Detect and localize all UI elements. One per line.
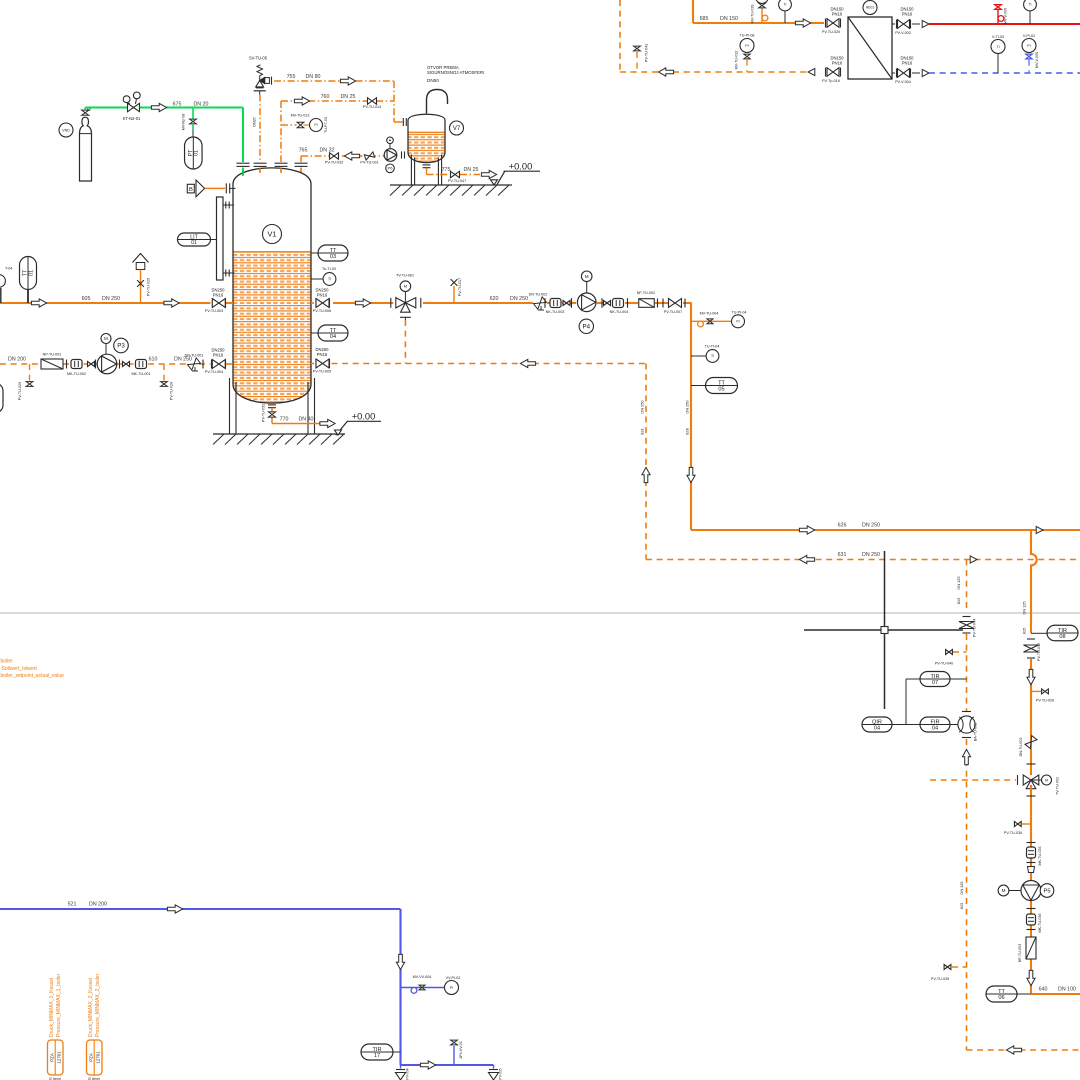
svg-text:PV-TU-036: PV-TU-036 bbox=[1004, 831, 1022, 835]
vent PV-TU-041 bbox=[636, 52, 638, 72]
flow arrow 626 bbox=[799, 526, 814, 534]
svg-text:PI: PI bbox=[1027, 44, 1030, 48]
svg-text:631: 631 bbox=[838, 552, 847, 558]
svg-text:MV-VV-004: MV-VV-004 bbox=[413, 975, 432, 979]
valve PV-V-002 bbox=[892, 23, 895, 25]
svg-text:DN50: DN50 bbox=[427, 78, 439, 83]
instrument TI 685 bbox=[779, 0, 792, 11]
svg-text:DN 125: DN 125 bbox=[956, 576, 961, 589]
instrument PI TU-PI-04 bbox=[732, 315, 745, 328]
sample MV-TU-039 bbox=[761, 9, 763, 24]
wire line 610 bbox=[0, 363, 41, 365]
label V1 bbox=[263, 225, 282, 244]
svg-text:TIR: TIR bbox=[1058, 628, 1067, 634]
instrument TI red bbox=[1024, 0, 1037, 11]
flow arrow line 775 bbox=[481, 170, 496, 178]
svg-text:PV-TU-032: PV-TU-032 bbox=[262, 404, 266, 422]
svg-text:TI: TI bbox=[996, 45, 999, 49]
check valve DN-TU-003 bbox=[1025, 736, 1037, 749]
wire 610 return down bbox=[645, 364, 647, 559]
valve PV-TU-007 bbox=[657, 299, 659, 308]
svg-text:DN 125: DN 125 bbox=[1022, 601, 1027, 614]
svg-text:17: 17 bbox=[374, 1053, 380, 1059]
svg-text:N2: N2 bbox=[87, 108, 91, 112]
svg-text:605: 605 bbox=[82, 296, 91, 302]
strainer NP-TU-001 bbox=[41, 359, 63, 369]
flange V1 nozzle 3 bbox=[275, 162, 288, 164]
valve PV-TU-004 bbox=[202, 360, 204, 369]
svg-text:PV-TU-047: PV-TU-047 bbox=[448, 179, 466, 183]
wire 815 dashed down bbox=[966, 560, 968, 613]
instrument TT 03 bbox=[311, 252, 318, 254]
flow arrow 605 left bbox=[31, 299, 46, 307]
svg-text:PZA: PZA bbox=[89, 1053, 94, 1062]
svg-text:815: 815 bbox=[1022, 628, 1027, 635]
wire line 765 bbox=[301, 155, 384, 157]
svg-text:PI: PI bbox=[745, 44, 748, 48]
svg-text:PI: PI bbox=[736, 320, 739, 324]
wire hot water red bbox=[929, 23, 1080, 25]
junction tri hot out bbox=[912, 23, 920, 25]
svg-text:DN20: DN20 bbox=[252, 117, 256, 126]
junction 626 branch bbox=[1036, 526, 1043, 533]
svg-text:PV-TU-041: PV-TU-041 bbox=[645, 44, 649, 62]
svg-text:04: 04 bbox=[330, 334, 336, 340]
wire 815 lower bbox=[966, 739, 968, 1050]
svg-text:Pressure_MINMAX_1_boiler: Pressure_MINMAX_1_boiler bbox=[56, 973, 62, 1037]
wire solid column bbox=[1030, 659, 1032, 775]
wire 815 bottom corner bbox=[967, 1049, 1080, 1051]
svg-text:VV-PI-02: VV-PI-02 bbox=[446, 976, 461, 980]
svg-text:521: 521 bbox=[68, 902, 77, 908]
drain funnel left bbox=[400, 1065, 402, 1069]
wire 765 drop to V1 bbox=[300, 156, 302, 162]
svg-text:675: 675 bbox=[173, 101, 182, 107]
wire SV inlet DN20 to V1 bbox=[259, 95, 261, 163]
wire green from cylinder to V1 bbox=[84, 108, 86, 110]
svg-text:PV-TU-042: PV-TU-042 bbox=[1037, 643, 1041, 661]
svg-text:DN 250: DN 250 bbox=[102, 296, 120, 302]
svg-text:V-TI-03: V-TI-03 bbox=[992, 35, 1004, 39]
sample MV-V-006 red bbox=[997, 10, 999, 24]
pump P4 bbox=[577, 293, 596, 312]
valve PV-TU-042 bbox=[1027, 638, 1035, 640]
svg-text:PV-TU-003: PV-TU-003 bbox=[205, 309, 223, 313]
svg-text:TI: TI bbox=[783, 3, 786, 7]
svg-text:Pressure_MINMAX_2_boiler: Pressure_MINMAX_2_boiler bbox=[95, 973, 101, 1037]
svg-text:PV-004: PV-004 bbox=[406, 1068, 410, 1079]
svg-text:NK-TU-003: NK-TU-003 bbox=[546, 310, 565, 314]
svg-text:PV-TU-004: PV-TU-004 bbox=[205, 370, 223, 374]
svg-text:MK-TU-036: MK-TU-036 bbox=[1038, 913, 1042, 932]
vent valve PV-TU-029 bbox=[29, 364, 31, 381]
sample point MV-TU-004 bbox=[691, 320, 732, 322]
wire 610 return dashed bbox=[332, 363, 647, 365]
flow arrow 521 bbox=[167, 905, 182, 913]
node V1 top nozzles bbox=[242, 168, 244, 176]
instrument QIR 04 bbox=[862, 717, 892, 732]
svg-text:DN 32: DN 32 bbox=[319, 148, 334, 154]
instrument PT 01 bbox=[185, 137, 203, 169]
svg-text:PN16: PN16 bbox=[213, 353, 224, 358]
svg-text:05: 05 bbox=[718, 386, 724, 392]
valve MV-TU-013 with PI bbox=[281, 124, 297, 126]
svg-text:NF-TU-002: NF-TU-002 bbox=[637, 291, 655, 295]
flow arrow 620 down bbox=[687, 467, 695, 482]
svg-text:TI: TI bbox=[328, 277, 331, 281]
svg-text:04: 04 bbox=[932, 725, 938, 731]
svg-text:FIR: FIR bbox=[930, 719, 939, 725]
strainer NF-TU-002 bbox=[639, 299, 655, 308]
svg-text:boiler: boiler bbox=[1, 659, 14, 665]
instrument cut capsule left bbox=[0, 383, 3, 413]
svg-text:P4: P4 bbox=[583, 324, 591, 331]
wire B to V1 bbox=[205, 187, 225, 189]
flow arrow 521 down bbox=[396, 954, 404, 969]
svg-text:TU-PI-08: TU-PI-08 bbox=[740, 34, 755, 38]
svg-text:PV-TU-035: PV-TU-035 bbox=[931, 977, 949, 981]
strainer NF-TU-003 bbox=[1026, 937, 1036, 959]
flow arrow line 675 bbox=[151, 103, 166, 111]
svg-text:815: 815 bbox=[956, 598, 961, 605]
drain valve DN-TU-001 bbox=[188, 358, 201, 370]
svg-text:640: 640 bbox=[1039, 987, 1048, 993]
offpage connector B bbox=[187, 184, 194, 193]
flow arrow 620a bbox=[355, 299, 370, 307]
flex MK-TU-002 bbox=[66, 360, 68, 369]
svg-text:M: M bbox=[1002, 888, 1006, 893]
wire 3way to dashed bbox=[404, 320, 406, 364]
flow arrow HX return bbox=[658, 68, 673, 76]
flow arrow line 760 bbox=[294, 97, 309, 105]
instrument PI VV-PI-02 bbox=[445, 981, 459, 995]
junction tri cold out bbox=[912, 72, 920, 74]
flow arrow 685 bbox=[795, 19, 810, 27]
svg-text:Druck_MINMAX_1_Kessel: Druck_MINMAX_1_Kessel bbox=[49, 978, 55, 1037]
instrument FIR 04 bbox=[920, 717, 950, 732]
svg-text:MV-TU-032: MV-TU-032 bbox=[735, 51, 739, 70]
elevation marker V1 +0.00 bbox=[336, 421, 348, 435]
signal line horizontal bbox=[804, 629, 963, 631]
svg-text:boiler_setpoint_actual_value: boiler_setpoint_actual_value bbox=[1, 673, 65, 679]
wire line 626 bbox=[691, 529, 1080, 531]
svg-text:PN16: PN16 bbox=[902, 12, 913, 17]
svg-text:SV-TU-05: SV-TU-05 bbox=[249, 56, 268, 61]
svg-text:KT-N2-01: KT-N2-01 bbox=[123, 116, 141, 121]
svg-text:DN 125: DN 125 bbox=[959, 881, 964, 894]
instrument TT 01 bbox=[20, 257, 37, 290]
reducer P4 suction bbox=[563, 301, 570, 306]
level gauge standpipe bbox=[217, 197, 224, 280]
vent PV-TU-036 bbox=[1022, 823, 1031, 825]
svg-text:V7: V7 bbox=[453, 126, 461, 132]
svg-text:PN16: PN16 bbox=[902, 61, 913, 66]
svg-text:TU-PI-04: TU-PI-04 bbox=[732, 311, 747, 315]
svg-text:PI: PI bbox=[450, 986, 453, 990]
valve PV-TU-020 bbox=[825, 19, 827, 28]
svg-text:M: M bbox=[104, 336, 108, 341]
svg-text:PV-TU-044: PV-TU-044 bbox=[973, 619, 977, 637]
wire line 755 bbox=[274, 80, 394, 82]
svg-text:DN 250: DN 250 bbox=[862, 552, 880, 558]
svg-text:DN-TU-001: DN-TU-001 bbox=[185, 353, 204, 357]
reducer P5 bbox=[1028, 867, 1035, 873]
svg-text:PV-TU-026: PV-TU-026 bbox=[1036, 699, 1054, 703]
flange V1 nozzle green bbox=[237, 162, 250, 164]
valve MV-N2-08 bbox=[192, 108, 194, 119]
valve PV-TU-005 bbox=[311, 363, 314, 365]
elevation marker V7 +0.00 bbox=[497, 171, 505, 184]
svg-text:VND: VND bbox=[62, 128, 70, 132]
svg-text:PZA: PZA bbox=[50, 1053, 55, 1062]
svg-text:M: M bbox=[585, 274, 589, 279]
junction square bbox=[881, 627, 888, 634]
svg-text:PN16: PN16 bbox=[213, 293, 224, 298]
svg-text:DN 250: DN 250 bbox=[639, 400, 644, 414]
vessel V7 bbox=[408, 114, 445, 162]
valve PV-V-004 bbox=[892, 72, 895, 74]
flex MK-TU-001 bbox=[119, 360, 121, 369]
flow arrow line 765 bbox=[344, 152, 359, 160]
svg-text:+0.00: +0.00 bbox=[352, 412, 376, 422]
svg-text:DN 25: DN 25 bbox=[340, 94, 355, 100]
flange V7 nozzle top bbox=[402, 118, 404, 126]
svg-text:MK-TU-001: MK-TU-001 bbox=[131, 372, 150, 376]
svg-text:07: 07 bbox=[932, 680, 938, 686]
vent valve PV-TU-035 bbox=[952, 966, 967, 968]
drain funnel right bbox=[493, 1065, 495, 1069]
svg-text:01: 01 bbox=[191, 240, 197, 246]
flange below 3way bbox=[1027, 795, 1036, 797]
gray divider line bbox=[0, 612, 1080, 614]
instrument TIR 17 bbox=[361, 1044, 393, 1060]
svg-text:M: M bbox=[1045, 778, 1048, 782]
wire line 605 bbox=[0, 302, 211, 304]
svg-text:DN 200: DN 200 bbox=[89, 902, 107, 908]
svg-text:770: 770 bbox=[280, 416, 289, 422]
svg-text:PV-TU-020: PV-TU-020 bbox=[822, 30, 840, 34]
valve KT-N2-01 bbox=[128, 103, 140, 111]
wire V7 drain 775 bbox=[423, 164, 431, 166]
svg-text:PV-TU-017: PV-TU-017 bbox=[458, 278, 462, 296]
svg-text:BA-TU-002: BA-TU-002 bbox=[974, 723, 978, 741]
svg-text:MV-TU-013: MV-TU-013 bbox=[291, 114, 310, 118]
flow arrow 831 up bbox=[642, 467, 650, 482]
flow arrow down col bbox=[1027, 669, 1035, 684]
vessel V1 bbox=[233, 168, 311, 403]
flex MK-TU-004 bbox=[613, 299, 624, 308]
svg-text:TT: TT bbox=[330, 248, 337, 254]
svg-text:P3: P3 bbox=[117, 343, 125, 350]
svg-text:610: 610 bbox=[149, 357, 158, 363]
svg-text:MV-N2-08: MV-N2-08 bbox=[182, 114, 186, 131]
instrument TT 06 bbox=[986, 986, 1017, 1002]
svg-text:760: 760 bbox=[321, 94, 330, 100]
signal TIR07 to FIR04 bbox=[906, 678, 920, 680]
svg-text:DN 25: DN 25 bbox=[463, 167, 478, 173]
svg-text:PV-TU-006: PV-TU-006 bbox=[313, 309, 331, 313]
svg-text:DN 250: DN 250 bbox=[684, 400, 689, 414]
flow arrow 815 bottom bbox=[1006, 1046, 1021, 1054]
flow arrow 521 bottom bbox=[420, 1061, 435, 1069]
svg-text:DN 250: DN 250 bbox=[862, 523, 880, 529]
svg-text:DN 150: DN 150 bbox=[720, 16, 738, 22]
svg-text:MV-V-005: MV-V-005 bbox=[1035, 52, 1039, 68]
svg-text:06: 06 bbox=[998, 995, 1004, 1001]
svg-text:P6: P6 bbox=[388, 166, 394, 171]
svg-text:Tu-TI-03: Tu-TI-03 bbox=[322, 267, 336, 271]
flow arrow 815 up bbox=[962, 749, 970, 764]
svg-text:MV-TU-039: MV-TU-039 bbox=[751, 5, 755, 24]
flex MK-TU-035 bbox=[1027, 842, 1036, 844]
flange B nozzle bbox=[225, 183, 227, 193]
flange V1 nozzle 2 bbox=[254, 162, 267, 164]
svg-text:755: 755 bbox=[287, 74, 296, 80]
svg-text:DN-TU-003: DN-TU-003 bbox=[1019, 738, 1023, 757]
flex MK-TU-003 bbox=[544, 298, 546, 308]
wire cold water blue bbox=[929, 72, 1080, 74]
valve PV-TU-044 bbox=[963, 616, 971, 618]
junction 631 branch bbox=[970, 556, 977, 563]
svg-text:PV-TU-040: PV-TU-040 bbox=[935, 661, 953, 665]
wire line 620 bbox=[423, 302, 533, 304]
svg-text:PV-TU-029: PV-TU-029 bbox=[18, 382, 22, 400]
svg-text:PV-TU-005: PV-TU-005 bbox=[313, 369, 331, 373]
svg-text:+0.00: +0.00 bbox=[509, 161, 533, 171]
valve PV-TU-047 bbox=[451, 171, 460, 177]
svg-text:PV-TU-025: PV-TU-025 bbox=[147, 278, 151, 296]
svg-text:TT: TT bbox=[998, 989, 1005, 995]
svg-text:PV-V-004: PV-V-004 bbox=[895, 80, 911, 84]
wire V1 drain 770 bbox=[268, 404, 276, 406]
instrument TI TU-TI-04 bbox=[691, 355, 706, 357]
flange V7 pump nozzle bbox=[401, 151, 403, 158]
svg-text:DN 20: DN 20 bbox=[193, 101, 208, 107]
instrument cut left PT bbox=[0, 275, 5, 288]
instrument TIR 08 bbox=[1031, 632, 1047, 634]
label V7 bbox=[450, 121, 464, 135]
svg-text:SIGURNOSNOJ ATMOSFERI: SIGURNOSNOJ ATMOSFERI bbox=[427, 70, 484, 75]
svg-text:DN-TU-002: DN-TU-002 bbox=[529, 292, 548, 296]
wire 815 below valve bbox=[966, 634, 968, 711]
check valve PV-TU-031 bbox=[364, 152, 374, 160]
three-way valve TV-TU-002 bbox=[1017, 775, 1019, 785]
wire line 760 bbox=[281, 100, 394, 102]
ground hatch V7 bbox=[390, 184, 512, 186]
wire line 685 bbox=[692, 0, 694, 23]
svg-text:V1: V1 bbox=[267, 230, 276, 239]
flow arrow 610 return bbox=[520, 359, 535, 367]
instrument TT 04 bbox=[311, 332, 318, 334]
svg-text:MK-TU-035: MK-TU-035 bbox=[1038, 846, 1042, 865]
svg-text:DN 100: DN 100 bbox=[1058, 987, 1076, 993]
pump P6 bbox=[384, 149, 397, 162]
svg-text:DN 250: DN 250 bbox=[510, 296, 528, 302]
wire 620 from valve to 3way bbox=[333, 302, 393, 304]
svg-text:PN16: PN16 bbox=[317, 293, 328, 298]
instrument VND bbox=[59, 123, 73, 137]
reducer before P3 bbox=[88, 362, 95, 367]
nitrogen cylinder bbox=[80, 117, 92, 181]
valve PV-Tp-019 bbox=[825, 68, 827, 77]
pump P5 bbox=[1021, 881, 1041, 901]
svg-text:04: 04 bbox=[874, 725, 880, 731]
svg-text:V-PI-02: V-PI-02 bbox=[1023, 34, 1035, 38]
svg-text:12701: 12701 bbox=[96, 1051, 101, 1064]
flex MK-TU-036 bbox=[1027, 908, 1036, 910]
svg-text:PV-005: PV-005 bbox=[499, 1068, 503, 1079]
svg-text:PV-TU-031: PV-TU-031 bbox=[360, 160, 378, 164]
wire 521 bottom bbox=[401, 1064, 494, 1066]
svg-text:01: 01 bbox=[194, 150, 200, 156]
flange above 3way bbox=[1027, 763, 1036, 765]
flow arrow 605 mid bbox=[164, 299, 179, 307]
valve PV-TU-014 bbox=[368, 98, 377, 104]
svg-text:01: 01 bbox=[28, 270, 34, 276]
svg-text:PV-V-002: PV-V-002 bbox=[895, 31, 911, 35]
svg-text:815: 815 bbox=[959, 903, 964, 910]
valve PV-TU-003 bbox=[212, 299, 214, 308]
svg-text:MK-TU-002: MK-TU-002 bbox=[67, 372, 86, 376]
svg-text:PV-Tp-019: PV-Tp-019 bbox=[822, 79, 840, 83]
svg-text:M: M bbox=[404, 284, 407, 289]
vessel V7 legs bbox=[410, 155, 412, 186]
valve PV-TU-032 bbox=[330, 153, 339, 159]
wire HX return dashed bbox=[619, 0, 621, 72]
svg-text:TT: TT bbox=[330, 328, 337, 334]
vessel V7 vent hook bbox=[427, 90, 448, 114]
svg-text:PV-TU-014: PV-TU-014 bbox=[363, 105, 381, 109]
svg-text:TV-TU-061: TV-TU-061 bbox=[396, 274, 414, 278]
heat exchanger HE01 bbox=[848, 17, 892, 79]
svg-text:765: 765 bbox=[299, 148, 308, 154]
svg-text:PN16: PN16 bbox=[832, 61, 843, 66]
svg-text:PN16: PN16 bbox=[317, 352, 328, 357]
svg-text:PV-TU-032: PV-TU-032 bbox=[325, 160, 343, 164]
sample MV-VV-004 bbox=[401, 987, 445, 989]
flow element BA-TU-002 bbox=[962, 711, 971, 713]
standpipe bottom connection bbox=[223, 272, 235, 274]
svg-text:1Ph-VV-01: 1Ph-VV-01 bbox=[459, 1041, 463, 1059]
flow arrow line 755 bbox=[340, 77, 355, 85]
pump P3 bbox=[97, 354, 117, 374]
svg-text:HE01: HE01 bbox=[866, 6, 874, 10]
svg-text:B: B bbox=[189, 187, 193, 193]
svg-text:TT: TT bbox=[718, 380, 725, 386]
svg-text:Sollwert_Istwert: Sollwert_Istwert bbox=[2, 666, 38, 672]
standpipe top connection bbox=[223, 204, 234, 206]
vent PV-TU-040 bbox=[953, 651, 967, 653]
vent 1Ph-VV-01 bbox=[453, 1046, 455, 1065]
svg-text:DN 200: DN 200 bbox=[8, 357, 26, 363]
wire branch to TV valve bbox=[930, 779, 1016, 781]
wire line 631 bbox=[645, 558, 647, 560]
svg-text:PN16: PN16 bbox=[832, 12, 843, 17]
vent PV-TU-025 bbox=[133, 254, 149, 263]
vent valve PV-TU-026 bbox=[163, 364, 165, 381]
svg-text:620: 620 bbox=[490, 296, 499, 302]
svg-text:08: 08 bbox=[1059, 634, 1065, 640]
vessel V1 legs bbox=[229, 378, 231, 434]
svg-text:TI: TI bbox=[711, 354, 714, 358]
svg-text:DN 250: DN 250 bbox=[174, 357, 192, 363]
svg-text:PV-TU-026: PV-TU-026 bbox=[170, 382, 174, 400]
svg-text:12701: 12701 bbox=[57, 1051, 62, 1064]
svg-text:PI: PI bbox=[314, 123, 317, 127]
svg-text:PV-TU-007: PV-TU-007 bbox=[664, 310, 682, 314]
svg-text:TV-TU-002: TV-TU-002 bbox=[1056, 777, 1060, 795]
svg-text:TIR: TIR bbox=[930, 674, 939, 680]
